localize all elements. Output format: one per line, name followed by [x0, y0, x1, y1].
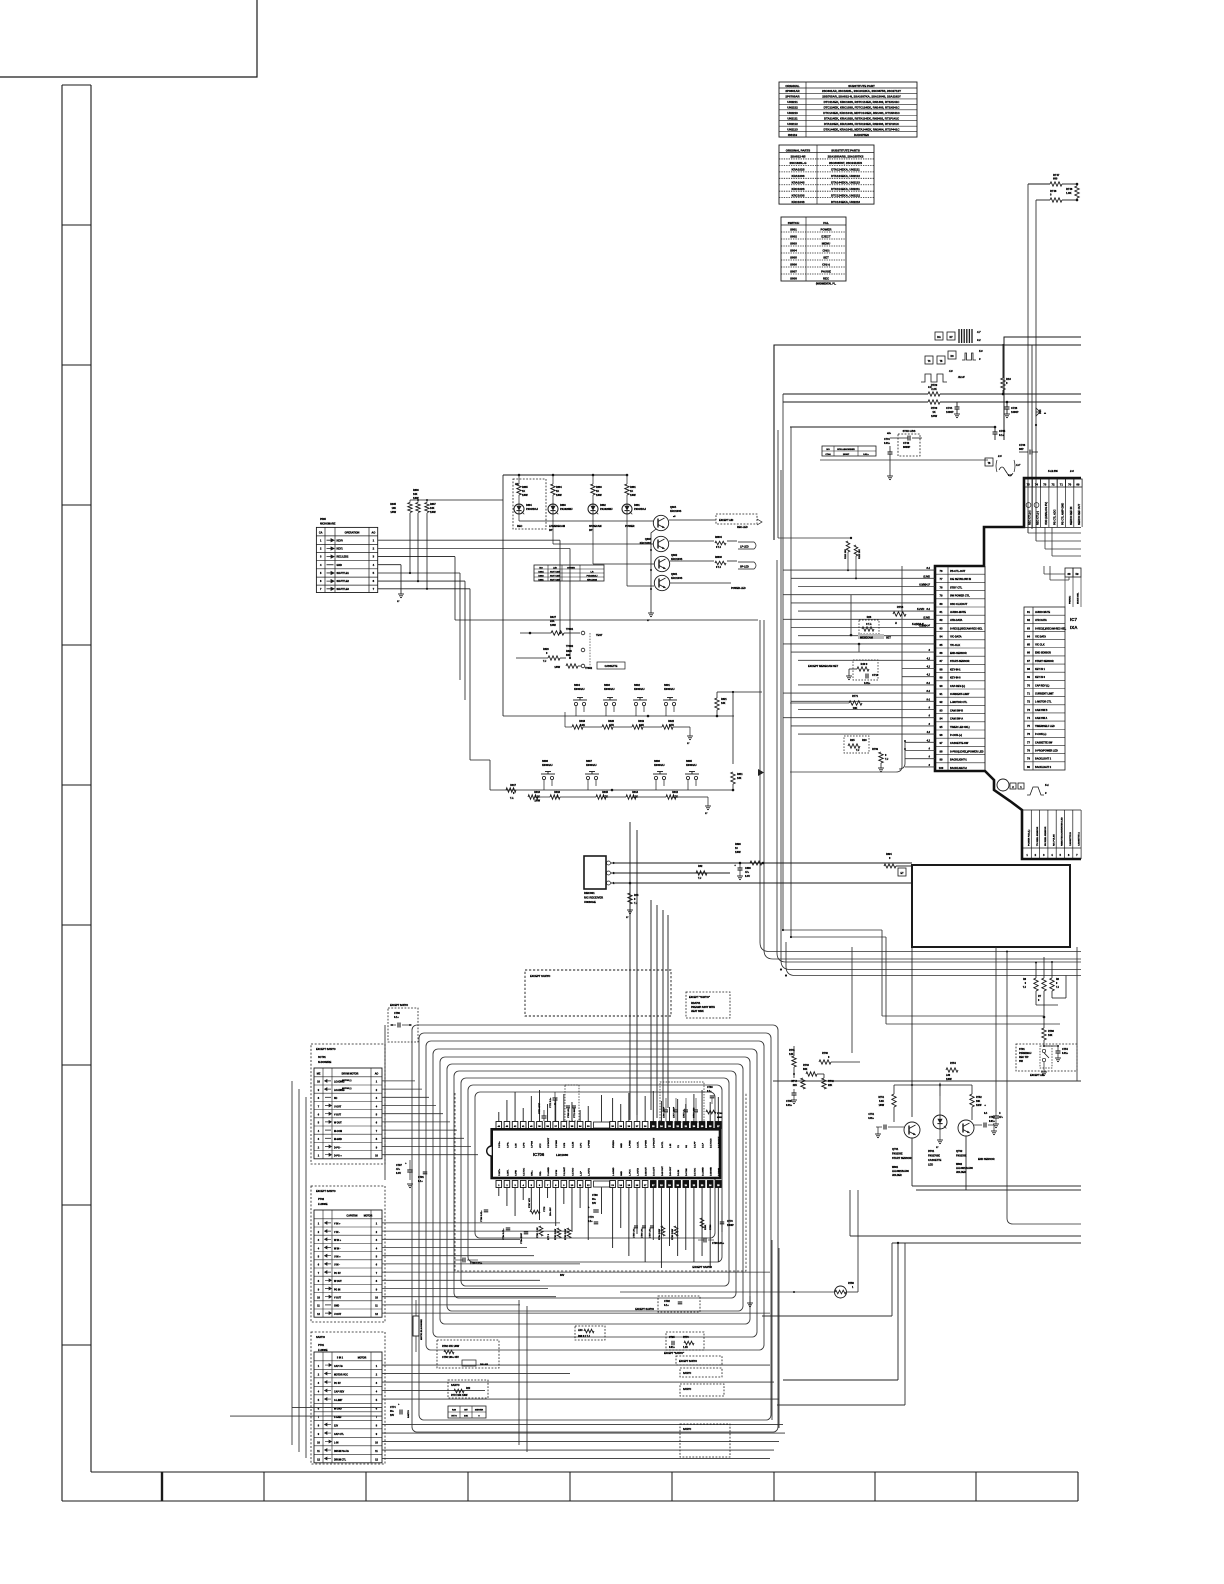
wire verticals through bundle [995, 947, 997, 1112]
svg-text:REMOTE/CONVERTER LED: REMOTE/CONVERTER LED [1062, 817, 1064, 846]
svg-text:C726: C726 [1011, 406, 1018, 410]
svg-text:CT80: CT80 [592, 1195, 598, 1197]
svg-text:0.1+: 0.1+ [588, 1221, 593, 1223]
svg-text:SP-LED: SP-LED [740, 566, 749, 569]
svg-text:71: 71 [1027, 691, 1030, 695]
wire bundle to IC706 top [629, 822, 631, 1120]
svg-text:L-AGND: L-AGND [612, 1167, 615, 1176]
node REC-LED flag [716, 514, 757, 524]
svg-text:1/2W: 1/2W [976, 1105, 982, 1107]
svg-text:OPERATION: OPERATION [345, 532, 360, 535]
node SANYO box 3 [680, 1384, 724, 1396]
svg-text:C-CTL: C-CTL [637, 1141, 639, 1148]
table substitute-part list 2 [779, 145, 874, 204]
svg-text:C744: C744 [825, 453, 831, 456]
IC701 top pin row 75-68 [1024, 479, 1032, 487]
svg-text:R40 0: R40 0 [861, 663, 868, 666]
svg-text:CT85 0.01+: CT85 0.01+ [634, 1227, 636, 1238]
svg-text:W802: W802 [956, 1164, 963, 1166]
svg-text:EXCEPT "SANYO": EXCEPT "SANYO" [664, 1352, 684, 1355]
svg-text:R617: R617 [510, 784, 516, 787]
svg-text:OSC CLK/OUT: OSC CLK/OUT [950, 603, 968, 606]
svg-text:C-FG-: C-FG- [507, 1142, 509, 1148]
svg-text:90: 90 [940, 684, 943, 688]
svg-text:RT73: RT73 [683, 1337, 689, 1339]
svg-text:47+: 47+ [745, 871, 750, 874]
svg-text:CAM SW-B: CAM SW-B [950, 709, 963, 712]
svg-text:PB/REC: PB/REC [1070, 595, 1072, 604]
svg-text:HOLDER: HOLDER [892, 1175, 902, 1177]
svg-text:DAN475ES: DAN475ES [854, 133, 869, 137]
svg-text:M GND: M GND [334, 1408, 342, 1410]
svg-text:AUDIO MUTE: AUDIO MUTE [1035, 611, 1051, 614]
svg-text:K0004AJ: K0004AJ [586, 764, 597, 767]
svg-text:0 T.J: 0 T.J [716, 547, 722, 549]
resistor RT44 22K [801, 1078, 805, 1089]
sync-abs absorber table [822, 446, 876, 456]
svg-text:12K: 12K [789, 1053, 794, 1056]
svg-text:22K: 22K [550, 620, 555, 623]
svg-text:33+: 33+ [390, 1411, 395, 1413]
node EXCEPT SANYO preamp note [686, 992, 730, 1018]
svg-text:10K: 10K [430, 507, 435, 510]
wire pins 60 59 feed [1044, 573, 1065, 575]
svg-text:82: 82 [940, 618, 943, 622]
svg-text:L-VCC: L-VCC [629, 1169, 631, 1176]
svg-text:R637: R637 [430, 503, 436, 506]
svg-text:L-OUT2: L-OUT2 [637, 1167, 639, 1176]
svg-text:0.01+: 0.01+ [884, 442, 891, 445]
svg-text:72: 72 [1051, 483, 1055, 487]
IC701 right pin table rows 61-80 [1024, 607, 1065, 770]
svg-text:PC 5V: PC 5V [334, 1383, 341, 1385]
wire vertical feeders left [384, 1025, 386, 1180]
test point TP601 TEST [581, 631, 585, 635]
svg-text:PXA020WJ: PXA020WJ [600, 508, 613, 511]
svg-text:SUBSTITUTE PART: SUBSTITUTE PART [848, 84, 875, 88]
svg-text:START SENSOR: START SENSOR [892, 1157, 912, 1160]
svg-text:71: 71 [1060, 483, 1064, 487]
svg-text:RT13: RT13 [897, 605, 904, 609]
svg-text:70: 70 [1068, 483, 1072, 487]
svg-text:CT52: CT52 [989, 1117, 995, 1119]
svg-text:1K: 1K [596, 490, 599, 493]
node keypad output flag [758, 769, 764, 776]
svg-text:DTA114EKA, UN2111: DTA114EKA, UN2111 [831, 168, 860, 172]
svg-text:KRC103S: KRC103S [587, 579, 597, 581]
svg-text:C-FC: C-FC [581, 1142, 583, 1148]
svg-text:16V: 16V [592, 1203, 597, 1205]
svg-text:CT68 0.01+: CT68 0.01+ [568, 1107, 570, 1118]
svg-text:D662: D662 [600, 504, 606, 507]
svg-text:L-MOTOR CTL: L-MOTOR CTL [1035, 701, 1052, 704]
svg-text:IXA: IXA [1070, 625, 1078, 630]
svg-text:C-LVCC: C-LVCC [524, 1167, 526, 1176]
wire bottom vertical bundle [518, 1300, 520, 1445]
svg-text:77: 77 [940, 577, 943, 581]
svg-text:R615: R615 [602, 791, 608, 794]
svg-text:DTA124EKA, UN2112: DTA124EKA, UN2112 [831, 174, 860, 178]
wire row B links [538, 796, 550, 798]
svg-text:0.01+: 0.01+ [863, 454, 869, 456]
svg-text:S608: S608 [542, 760, 548, 763]
svg-text:D-LPF: D-LPF [694, 1141, 696, 1148]
svg-text:0.1+: 0.1+ [418, 1180, 423, 1183]
svg-text:R32: R32 [698, 865, 703, 868]
capacitor CT68 CT71 dashed [565, 1085, 579, 1121]
svg-text:Q662: Q662 [671, 554, 678, 557]
svg-text:6.3V: 6.3V [396, 1172, 401, 1175]
svg-text:2.7K: 2.7K [669, 724, 674, 727]
svg-text:W OUT: W OUT [334, 1123, 342, 1125]
svg-text:4.2: 4.2 [926, 657, 931, 660]
svg-text:96: 96 [940, 733, 943, 737]
svg-text:PT02: PT02 [318, 1198, 325, 1201]
svg-text:4.2: 4.2 [926, 739, 931, 742]
svg-text:STBY CTL: STBY CTL [950, 586, 963, 589]
svg-text:KRA104S: KRA104S [791, 180, 804, 184]
svg-text:END SENSOR: END SENSOR [978, 1158, 995, 1161]
svg-text:69: 69 [1076, 483, 1080, 487]
svg-text:0 T.J: 0 T.J [716, 567, 722, 569]
svg-text:L80: L80 [946, 1074, 951, 1077]
wire sensor bases [893, 1085, 895, 1094]
svg-text:T.J.: T.J. [510, 797, 514, 800]
svg-text:0.1+: 0.1+ [394, 1016, 399, 1019]
svg-text:TP602: TP602 [566, 645, 574, 648]
svg-text:R699: R699 [735, 843, 741, 846]
svg-text:CT90 0.01+: CT90 0.01+ [712, 1243, 725, 1245]
svg-text:CT91: CT91 [418, 1176, 425, 1179]
svg-text:V OUT: V OUT [334, 1298, 342, 1300]
resistor R621 18K [715, 698, 719, 710]
svg-text:86: 86 [940, 651, 943, 655]
svg-text:1/8W: 1/8W [550, 624, 556, 627]
svg-text:CAP CTL: CAP CTL [334, 1433, 345, 1436]
svg-text:CT73 470P: CT73 470P [538, 1102, 541, 1114]
svg-text:KEY IN 1: KEY IN 1 [1035, 668, 1046, 671]
svg-text:R621: R621 [721, 698, 727, 701]
svg-text:0.01+: 0.01+ [864, 682, 871, 685]
wire horizontals into sensors [882, 1015, 1044, 1017]
svg-text:94: 94 [940, 717, 943, 721]
svg-text:L-MOTOR CTL: L-MOTOR CTL [950, 701, 968, 704]
svg-text:MENU: MENU [822, 242, 831, 246]
svg-text:360-400: 360-400 [480, 1363, 489, 1366]
svg-text:1/8W: 1/8W [946, 1078, 952, 1081]
svg-text:KRC103S: KRC103S [671, 577, 683, 580]
svg-text:Y/C-DATA: Y/C-DATA [950, 636, 962, 639]
svg-text:100: 100 [939, 766, 944, 770]
svg-text:PX02700E: PX02700E [928, 1155, 940, 1158]
svg-text:END-SENSOR: END-SENSOR [950, 652, 967, 655]
svg-text:R34: R34 [634, 894, 639, 897]
svg-text:C772 0.022: C772 0.022 [694, 1107, 696, 1118]
capacitor cluster C786 C767 C765 C772 [660, 1082, 704, 1122]
node LP-LED flag [738, 542, 756, 549]
svg-text:3 IN 1: 3 IN 1 [337, 1358, 344, 1360]
svg-text:K0004AJ: K0004AJ [604, 688, 615, 691]
wire rail y1080 [773, 1080, 1081, 1082]
svg-text:SHUTTLE1: SHUTTLE1 [337, 572, 350, 575]
svg-text:EXCEPT SANYO: EXCEPT SANYO [316, 1190, 336, 1193]
svg-text:SYNC ABS: SYNC ABS [903, 430, 916, 433]
svg-text:SP/SECAM: SP/SECAM [589, 525, 602, 528]
svg-text:12V: 12V [334, 1425, 339, 1427]
svg-text:C-PGI: C-PGI [556, 1170, 558, 1176]
svg-text:M-COM: M-COM [334, 1131, 342, 1133]
svg-text:D-COM: D-COM [686, 1168, 688, 1176]
svg-text:Z-2606E: Z-2606E [318, 1203, 328, 1206]
IC701 internal cam marks [997, 779, 1009, 791]
svg-text:SERVO REF OUT: SERVO REF OUT [1077, 503, 1081, 525]
wire rail y1236 y1244 [850, 1235, 1081, 1237]
svg-text:VDD (ANALOG 5V): VDD (ANALOG 5V) [1044, 502, 1048, 525]
svg-text:85: 85 [940, 643, 943, 647]
svg-text:5.3VD: 5.3VD [923, 616, 930, 619]
svg-text:KEY-IN-0: KEY-IN-0 [950, 677, 961, 680]
svg-text:2.6: 2.6 [997, 454, 1002, 458]
svg-text:EXCEPT SANYO: EXCEPT SANYO [635, 1308, 654, 1311]
svg-text:MOTOR (-): MOTOR (-) [342, 1080, 352, 1082]
svg-text:81: 81 [940, 610, 943, 614]
svg-text:DTC124EK, KRC103S, FDTC124EK,: DTC124EK, KRC103S, FDTC124EK, RN1403, RT… [824, 106, 901, 110]
svg-text:91: 91 [940, 692, 943, 696]
wire switch row B bus [490, 789, 733, 791]
svg-text:5-12.5%: 5-12.5% [1048, 469, 1058, 473]
wire IC701 pin stub bus right of staircase [1028, 532, 1081, 534]
svg-text:SANYO: SANYO [451, 1384, 460, 1387]
svg-text:RT08: RT08 [717, 1113, 723, 1115]
svg-text:RT42: RT42 [828, 1080, 834, 1083]
svg-text:UN2112: UN2112 [787, 122, 798, 126]
svg-text:1K: 1K [556, 490, 559, 493]
svg-text:R26: R26 [867, 616, 872, 619]
svg-text:TP601: TP601 [566, 628, 574, 631]
svg-text:QT01: QT01 [892, 1148, 899, 1151]
svg-text:SU REEL SENSOR: SU REEL SENSOR [1045, 826, 1047, 846]
svg-text:KRC102S: KRC102S [791, 187, 804, 191]
svg-text:DTC114EK, KRC102S, RSTC114EK,: DTC114EK, KRC102S, RSTC114EK, RN1402, RT… [824, 100, 901, 104]
svg-text:K0004AJ: K0004AJ [634, 688, 645, 691]
svg-text:S804: S804 [790, 249, 797, 253]
svg-text:TIMER LED 3XL): TIMER LED 3XL) [950, 726, 970, 729]
svg-text:QT02: QT02 [956, 1150, 963, 1153]
svg-text:SET: SET [823, 256, 829, 260]
svg-text:RT47: RT47 [1053, 173, 1060, 177]
svg-text:R627: R627 [550, 616, 557, 619]
svg-text:CT54: CT54 [1062, 1048, 1069, 1051]
svg-text:U IN +: U IN + [334, 1257, 341, 1259]
svg-text:C-LIM: C-LIM [572, 1142, 574, 1148]
svg-text:CT18: CT18 [872, 674, 879, 677]
wire drum table outputs [382, 1080, 415, 1082]
svg-text:1/8W: 1/8W [931, 414, 938, 418]
svg-text:CT78: CT78 [727, 1221, 733, 1223]
svg-text:CAM SW-A: CAM SW-A [950, 718, 963, 721]
svg-text:80: 80 [1027, 765, 1030, 769]
resistor RT08 680K [706, 1110, 716, 1114]
svg-text:DA: DA [937, 336, 941, 339]
capacitor CT40 6800P sync abs [898, 434, 920, 456]
svg-text:S806: S806 [790, 263, 797, 267]
resistor R40 0 [853, 660, 878, 680]
svg-text:CH(+): CH(+) [822, 263, 830, 267]
svg-text:D664: D664 [526, 504, 532, 507]
svg-text:EXCEPT SANYO: EXCEPT SANYO [679, 1360, 697, 1363]
svg-text:62: 62 [1027, 618, 1030, 622]
svg-text:P2RM29AJ: P2RM29AJ [1019, 1052, 1032, 1055]
svg-text:SANYO: SANYO [683, 1372, 691, 1375]
svg-text:POWER-LED: POWER-LED [731, 587, 746, 590]
svg-text:99: 99 [940, 758, 943, 762]
svg-text:33+: 33+ [592, 1199, 597, 1201]
svg-text:R611: R611 [737, 773, 743, 776]
svg-text:67: 67 [1027, 659, 1030, 663]
svg-text:RT72 15K 1/8W: RT72 15K 1/8W [451, 1395, 468, 1397]
svg-text:2SA812-N5: 2SA812-N5 [790, 155, 805, 159]
svg-text:KEY IN 0: KEY IN 0 [1035, 676, 1046, 679]
resistor RT69 0 [879, 752, 883, 763]
resistor R26 0 TJ mesecam [859, 620, 879, 634]
svg-text:CA: CA [319, 532, 323, 535]
svg-text:DTC144EK, KRC104S, MDTC144EK,: DTC144EK, KRC104S, MDTC144EK, RN1401, RT… [823, 111, 900, 115]
svg-text:2SB705AR, 2SA812-N, 2SA1037KA,: 2SB705AR, 2SA812-N, 2SA1037KA, 2SA1304S,… [822, 95, 901, 99]
svg-text:70: 70 [1027, 683, 1030, 687]
wire capstan table outputs [382, 1222, 560, 1224]
svg-text:CAP FG: CAP FG [334, 1365, 343, 1368]
svg-text:L-OUT1: L-OUT1 [589, 1167, 591, 1176]
svg-text:EXCEPT SANYO: EXCEPT SANYO [390, 1004, 408, 1007]
svg-text:NC: NC [334, 1098, 338, 1100]
svg-text:1000P: 1000P [1011, 410, 1019, 414]
svg-text:(W/DIMENTAL PL.: (W/DIMENTAL PL. [816, 283, 837, 286]
svg-text:SANYO: SANYO [407, 1410, 410, 1418]
svg-text:NICHOMARE: NICHOMARE [320, 523, 336, 526]
svg-text:56V: 56V [560, 1274, 565, 1277]
svg-text:1.8K: 1.8K [1066, 191, 1072, 195]
svg-text:MOTOR (-): MOTOR (-) [342, 1088, 352, 1090]
node RT62 CT50 box [437, 1340, 499, 1368]
test point TP602 [581, 648, 585, 652]
svg-text:2SC3065ST, 2SC2412KS: 2SC3065ST, 2SC2412KS [829, 161, 862, 165]
svg-text:RT67 47K: RT67 47K [528, 1198, 531, 1208]
svg-text:74: 74 [1027, 716, 1030, 720]
wire right edge verticals [1076, 947, 1078, 1081]
svg-text:79: 79 [940, 594, 943, 598]
svg-text:S-PRO/POWER LED: S-PRO/POWER LED [1035, 750, 1058, 753]
svg-text:1/8W: 1/8W [430, 511, 436, 514]
node SANYO box 4 [680, 1424, 730, 1457]
test point D6 with pulse waveform [948, 351, 956, 359]
svg-text:68: 68 [1027, 667, 1030, 671]
svg-text:UN2111: UN2111 [787, 116, 798, 120]
svg-text:V IN -: V IN - [334, 1232, 340, 1234]
svg-text:DRUM MOTOR: DRUM MOTOR [342, 1073, 359, 1076]
svg-text:D663: D663 [560, 504, 566, 507]
svg-text:TU REEL SENSOR: TU REEL SENSOR [1037, 826, 1039, 846]
svg-text:D-PGOUT: D-PGOUT [654, 1137, 656, 1148]
svg-text:CAPSTAN: CAPSTAN [347, 1215, 358, 1218]
svg-text:C734: C734 [946, 406, 953, 410]
svg-text:CR1-: CR1- [540, 1171, 542, 1176]
svg-text:ME: ME [317, 1073, 321, 1076]
svg-text:GND: GND [334, 1306, 339, 1308]
svg-text:REC TIP: REC TIP [1019, 1056, 1029, 1059]
svg-text:HEAT SINK: HEAT SINK [691, 1010, 704, 1013]
svg-text:LNC: LNC [578, 1330, 583, 1332]
svg-text:5.0: 5.0 [979, 349, 983, 353]
svg-text:10K: 10K [1048, 1034, 1053, 1037]
svg-text:C744: C744 [884, 438, 890, 441]
svg-text:D-V-OUT: D-V-OUT [654, 1166, 656, 1176]
svg-text:KRC104S: KRC104S [791, 200, 804, 204]
svg-text:RT50: RT50 [848, 1282, 855, 1285]
svg-text:P-CON (+): P-CON (+) [1035, 733, 1047, 736]
svg-text:K0004AJ: K0004AJ [574, 688, 585, 691]
svg-text:2.2K: 2.2K [931, 387, 937, 391]
svg-text:0.1+: 0.1+ [999, 433, 1005, 437]
led D664 REC with resistor R665 [513, 479, 546, 529]
svg-text:KRA102S: KRA102S [791, 168, 804, 172]
svg-text:C-PG50: C-PG50 [556, 1139, 558, 1148]
svg-text:CT98 0.01+: CT98 0.01+ [481, 1210, 483, 1222]
svg-text:80: 80 [940, 602, 943, 606]
svg-text:DRUM PG-FG: DRUM PG-FG [334, 1451, 349, 1453]
svg-text:S606: S606 [654, 760, 660, 763]
IC701 top pin labels [1031, 487, 1033, 527]
svg-text:MOTOR: MOTOR [358, 1358, 367, 1360]
svg-text:69: 69 [1027, 675, 1030, 679]
svg-text:EJECT: EJECT [821, 235, 831, 239]
svg-text:0.01+: 0.01+ [669, 1347, 675, 1349]
svg-text:GND: GND [621, 1171, 623, 1176]
svg-text:CASSETTE: CASSETTE [928, 1159, 942, 1162]
svg-text:C-PWM: C-PWM [589, 1140, 591, 1148]
svg-text:SUBSTITUTE PARTS: SUBSTITUTE PARTS [831, 148, 860, 152]
svg-text:RT62 47K 1/8W: RT62 47K 1/8W [442, 1345, 460, 1348]
svg-text:2P0601AR: 2P0601AR [785, 89, 800, 93]
svg-text:98: 98 [940, 749, 943, 753]
led DT01 cassette lamp [933, 1115, 947, 1129]
svg-text:DTA144EK, KRA104S, MDTA144EK,: DTA144EK, KRA104S, MDTA144EK, RN2404, RT… [824, 127, 901, 131]
svg-text:C-FG: C-FG [524, 1142, 526, 1148]
svg-text:R636: R636 [413, 489, 419, 492]
svg-text:S607: S607 [586, 760, 592, 763]
svg-text:R/C RECEIVER: R/C RECEIVER [584, 896, 603, 900]
svg-text:10K: 10K [413, 493, 418, 496]
svg-text:DTC114EKA, UN2211: DTC114EKA, UN2211 [831, 187, 860, 191]
svg-text:MESECAM: MESECAM [860, 637, 873, 640]
svg-text:4.7K: 4.7K [609, 724, 614, 727]
svg-text:84: 84 [940, 635, 943, 639]
svg-text:88: 88 [940, 667, 943, 671]
svg-text:77: 77 [1027, 740, 1030, 744]
svg-text:10K: 10K [976, 1101, 981, 1103]
svg-text:PX0233E: PX0233E [892, 1153, 903, 1156]
wire [820, 459, 988, 461]
svg-text:4.2: 4.2 [926, 731, 931, 734]
svg-text:SHUTTLE2: SHUTTLE2 [337, 580, 350, 583]
svg-text:D-PG -: D-PG - [334, 1147, 341, 1149]
svg-text:47+: 47+ [999, 1116, 1004, 1119]
transistor Q661 KRC103S [654, 575, 669, 590]
svg-text:LHL0021BAJ00: LHL0021BAJ00 [956, 1167, 973, 1170]
svg-text:97: 97 [940, 741, 943, 745]
svg-text:0.2: 0.2 [977, 338, 981, 342]
svg-text:4.7: 4.7 [976, 330, 981, 334]
wire [783, 401, 928, 403]
